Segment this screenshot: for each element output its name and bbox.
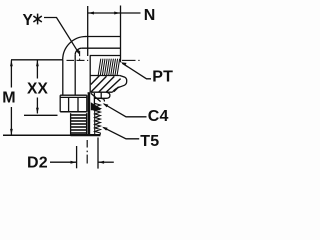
seal washer bottom line: [94, 97, 101, 99]
dimension D2: left extension line: [76, 146, 78, 168]
port centerline dash-dot left of body: [67, 51, 140, 61]
label D2 text: [27, 155, 48, 172]
label N text: [144, 7, 156, 24]
dimension M: line lower segment with arrow: [10, 107, 12, 135]
neck right wall: [74, 55, 76, 95]
seal washer inner vertical: [93, 93, 95, 109]
sectioned hex bottom edge: [90, 91, 112, 93]
bottom face of stud (thick): [71, 134, 101, 136]
dimension N: left arrowhead: [88, 12, 94, 15]
dimension M: line upper segment with arrow: [10, 60, 12, 87]
arrowhead of Y* leader: [76, 49, 80, 55]
inner bore line of right port (upper): [82, 47, 121, 49]
section boundary thick bar: [88, 92, 91, 135]
external male threads (schematic bands): [71, 114, 87, 134]
dimension XX: upper segment with up arrow: [36, 60, 38, 78]
left hex chamfer line: [60, 96, 87, 98]
dimension D2: left dimension line with arrow: [50, 161, 76, 163]
svg-text:XX: XX: [27, 81, 49, 98]
svg-text:M: M: [2, 90, 16, 107]
body top edge: [86, 36, 121, 38]
arrowhead of T5 leader: [102, 127, 108, 131]
svg-text:C4: C4: [148, 108, 169, 125]
seal washer disk outline: [94, 92, 110, 98]
left hex left edge: [59, 95, 61, 112]
dimension D2: right dimension line with arrow: [98, 161, 114, 163]
inner bore line of right port (lower): [90, 55, 121, 57]
external thread left edge: [70, 113, 72, 135]
label M text: [2, 90, 16, 107]
left hex facet line 1: [68, 97, 70, 111]
svg-text:Y: Y: [23, 12, 34, 29]
dimension N: right extension line: [120, 6, 122, 63]
stud centerline dash-dot (vertical): [86, 140, 88, 164]
dimension D2: right extension line: [97, 138, 99, 169]
bottom face line (M extension): [3, 134, 71, 136]
asterisk star of Y*: [33, 14, 41, 25]
seal section dark hatch: [91, 102, 101, 110]
svg-text:PT: PT: [152, 68, 173, 85]
male thread sawtooth profile (sectioned right side): [95, 103, 101, 134]
svg-text:N: N: [144, 7, 156, 24]
dimension N: right arrowhead: [114, 12, 120, 15]
label T5 text: [140, 133, 159, 150]
sectioned hex top edge: [90, 75, 120, 77]
seal washer diagonal: [91, 93, 101, 101]
arrowhead of PT leader: [121, 62, 127, 65]
left hex top edge: [60, 94, 87, 96]
shoulder line / M top extension: [11, 59, 63, 61]
inner bend fillet arc: [75, 48, 82, 55]
label Y* text: [23, 12, 34, 29]
svg-text:D2: D2: [27, 155, 48, 172]
left hex bottom edge: [60, 111, 87, 113]
body left edge lower step: [89, 56, 91, 93]
dimension XX: lower segment with down arrow: [36, 98, 38, 114]
seal washer lip curve: [101, 98, 105, 101]
svg-text:T5: T5: [140, 133, 159, 150]
leader line from Y* to inner bend fillet: [44, 18, 78, 53]
neck left wall: [62, 60, 64, 95]
label PT leader: [122, 63, 151, 79]
arrowhead of C4 leader: [103, 103, 109, 107]
label PT text: [152, 68, 173, 85]
label XX text: [27, 81, 49, 98]
sectioned hex chamfer ear: [112, 76, 126, 93]
label T5 leader: [104, 128, 140, 139]
external thread right edge: [86, 113, 88, 135]
male thread root line: [94, 104, 96, 135]
seal washer second vertical: [100, 92, 102, 98]
hex section hatching: [91, 76, 121, 92]
label C4 text: [148, 108, 169, 125]
label C4 leader: [104, 104, 147, 117]
port centerline dash-dot right of body: [122, 59, 136, 61]
XX reference line: [24, 114, 58, 116]
dimension N: dimension line: [88, 12, 141, 14]
dimension N: left extension/body edge line: [87, 6, 89, 56]
left hex right edge: [86, 95, 88, 112]
circuit/diagram: 90 degree street elbow fitting, catalog dimension drawing: [0, 0, 175, 175]
left hex facet line 2: [77, 97, 79, 111]
female pipe thread coil: [98, 59, 120, 76]
outer bend arc: [63, 36, 86, 59]
